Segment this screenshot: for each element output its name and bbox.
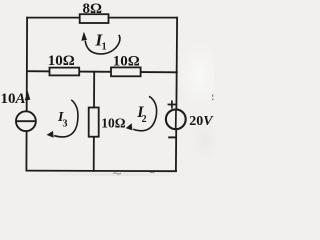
scan speck right edge: [212, 95, 214, 101]
loop arrow I2 arc: [133, 96, 156, 130]
loop arrow I1 head: [82, 33, 87, 41]
svg-text:10Ω: 10Ω: [101, 115, 126, 130]
resistor R2 10ohm mid-left: [50, 68, 80, 76]
svg-text:8Ω: 8Ω: [82, 1, 102, 17]
svg-text:1: 1: [102, 41, 107, 52]
current source arrow up: [25, 92, 30, 100]
wire left: [25, 18, 28, 171]
scan background: [0, 0, 215, 176]
wire middle horizontal: [27, 71, 177, 72]
resistor R1 8ohm top: [80, 14, 109, 23]
loop arrow I1 arc: [85, 35, 120, 54]
svg-text:10Ω: 10Ω: [48, 53, 75, 69]
voltage source VS circle: [166, 109, 186, 129]
svg-text:10A: 10A: [1, 91, 26, 107]
plus sign: [168, 101, 177, 109]
svg-text:10Ω: 10Ω: [113, 54, 140, 70]
resistor R3 10ohm mid-right: [111, 67, 141, 76]
loop arrow I3 arc: [54, 100, 78, 137]
minus sign: [168, 136, 177, 138]
scan specks bottom: [113, 172, 155, 174]
current source IS circle: [16, 111, 36, 131]
wire right: [176, 18, 177, 171]
svg-text:3: 3: [63, 119, 68, 130]
wire bottom: [26, 170, 176, 173]
loop arrow I2 head: [127, 124, 133, 130]
loop arrow I3 head: [47, 132, 53, 138]
svg-text:20V: 20V: [189, 114, 214, 129]
wire top: [27, 17, 177, 19]
svg-text:2: 2: [142, 114, 147, 125]
wire middle branch: [93, 72, 96, 171]
resistor R4 10ohm vertical: [89, 108, 99, 137]
